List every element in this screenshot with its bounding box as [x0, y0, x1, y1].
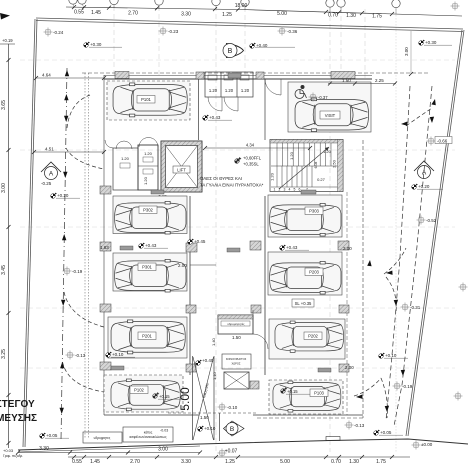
svg-text:1.20: 1.20 [209, 88, 218, 93]
top wall of building [104, 78, 372, 80]
VISIT top dims [328, 83, 396, 85]
structural columns at row boundaries [100, 186, 349, 389]
svg-text:-0.36: -0.36 [287, 29, 298, 34]
svg-text:-0.19: -0.19 [72, 269, 83, 274]
top property boundary (double line) [36, 18, 463, 29]
boxes below building (street furniture) [83, 432, 122, 443]
svg-text:-0.10: -0.10 [227, 405, 238, 410]
svg-text:2.70: 2.70 [130, 459, 140, 465]
svg-text:1.20: 1.20 [121, 156, 130, 161]
svg-text:1.20: 1.20 [270, 172, 275, 181]
dim line (tilted) [66, 7, 462, 16]
svg-text:+0.07: +0.07 [225, 449, 238, 455]
dims near building [32, 73, 106, 155]
parking spot P202 [269, 319, 345, 359]
svg-text:P103: P103 [314, 391, 324, 396]
section marker B bottom [224, 421, 245, 436]
svg-text:4.51: 4.51 [45, 147, 54, 152]
svg-text:1.20: 1.20 [323, 149, 332, 154]
curved branches into spots [67, 95, 90, 128]
svg-text:+0.10: +0.10 [112, 352, 124, 357]
svg-text:6: 6 [299, 188, 301, 192]
svg-text:P203: P203 [309, 270, 319, 275]
svg-text:1.20: 1.20 [289, 151, 294, 160]
svg-text:-0.66: -0.66 [437, 139, 448, 144]
svg-text:-0.37: -0.37 [318, 95, 328, 100]
svg-text:3.25: 3.25 [1, 349, 7, 359]
svg-text:SL +0.35: SL +0.35 [295, 301, 312, 306]
svg-text:3.00: 3.00 [404, 47, 409, 56]
svg-text:+0.10: +0.10 [385, 353, 397, 358]
svg-text:±0.00: ±0.00 [421, 442, 433, 447]
parking spot P103 [269, 380, 343, 414]
svg-text:A: A [422, 170, 427, 177]
svg-text:B: B [228, 48, 233, 55]
dotted sidewalk double line left of building [84, 73, 86, 438]
section marker A right [414, 161, 434, 179]
svg-text:6.08: 6.08 [314, 162, 318, 169]
svg-text:A: A [49, 171, 54, 178]
svg-text:+0.20: +0.20 [57, 193, 69, 198]
svg-text:P201: P201 [142, 334, 152, 339]
svg-text:B: B [230, 426, 234, 433]
entry ramp strip with cross arrow [192, 356, 194, 440]
north arrow [0, 13, 10, 20]
svg-text:1.30: 1.30 [346, 13, 356, 19]
left drive path dash-dot [61, 68, 67, 440]
bottom wall segments [104, 414, 199, 416]
section marker B top [223, 44, 244, 58]
svg-text:ασφάλτων/ανακυκλώσεως: ασφάλτων/ανακυκλώσεως [129, 435, 167, 439]
svg-text:3.30: 3.30 [181, 11, 191, 17]
svg-text:1: 1 [274, 188, 276, 192]
parking spot P102 [104, 375, 183, 412]
svg-text:υδρορρητες: υδρορρητες [94, 436, 111, 440]
svg-text:3: 3 [284, 188, 286, 192]
parking spot P201 [108, 317, 187, 358]
svg-text:+0.45: +0.45 [194, 239, 206, 244]
double door arcs on top [139, 138, 158, 148]
svg-text:0.70: 0.70 [331, 459, 341, 465]
svg-text:ΣΤΑΘΜΕΥΣΗΣ: ΣΤΑΘΜΕΥΣΗΣ [0, 413, 37, 424]
grid bubbles [69, 0, 400, 8]
svg-text:P102: P102 [134, 388, 144, 393]
svg-text:-0.13: -0.13 [354, 423, 365, 428]
kerb step bottom right [326, 437, 340, 441]
right property boundary (double line) [408, 30, 464, 436]
svg-text:-0.31: -0.31 [410, 305, 421, 310]
bubble stems [73, 4, 396, 14]
parking spot P302 [113, 196, 187, 234]
svg-text:1.40: 1.40 [211, 337, 216, 346]
wheel stops [111, 73, 331, 372]
lobby rooms left of lift [105, 138, 158, 191]
svg-text:+0.03: +0.03 [3, 448, 14, 453]
svg-text:P101: P101 [141, 97, 151, 102]
svg-text:3.30: 3.30 [181, 459, 191, 465]
svg-text:1.75: 1.75 [372, 13, 382, 19]
right side levels [427, 137, 436, 146]
svg-text:1.20: 1.20 [241, 88, 250, 93]
svg-text:0.55: 0.55 [74, 10, 84, 16]
svg-text:-0.13: -0.13 [75, 353, 86, 358]
svg-text:1.50: 1.50 [232, 335, 241, 340]
svg-text:1.25: 1.25 [225, 459, 235, 465]
secondary bottom dims [18, 452, 200, 454]
svg-text:1.30: 1.30 [349, 459, 359, 465]
curved connectors right [406, 108, 432, 126]
svg-text:+0.15: +0.15 [159, 394, 170, 399]
svg-text:-0.52: -0.52 [426, 218, 437, 223]
DIMS-BOTTOM [3, 446, 410, 465]
svg-text:2: 2 [279, 188, 281, 192]
svg-text:+0.30: +0.30 [425, 40, 437, 45]
svg-text:-0.23: -0.23 [168, 29, 179, 34]
svg-text:2.25: 2.25 [375, 78, 384, 83]
svg-text:2.00: 2.00 [343, 246, 352, 251]
svg-text:1.75: 1.75 [376, 459, 386, 465]
svg-text:ΟΛΕΣ ΟΙ ΘΥΡΕΣ ΚΑΙ: ΟΛΕΣ ΟΙ ΘΥΡΕΣ ΚΑΙ [200, 176, 242, 181]
svg-text:+0.05: +0.05 [46, 433, 58, 438]
left mid annotations [63, 267, 72, 276]
svg-text:3.65: 3.65 [1, 100, 7, 110]
svg-text:ΧΩΡΟΣ: ΧΩΡΟΣ [231, 362, 240, 366]
svg-text:1.50: 1.50 [342, 78, 351, 83]
svg-text:0.55: 0.55 [72, 459, 82, 465]
storage door arcs [208, 97, 222, 111]
svg-text:LIFT: LIFT [177, 168, 186, 173]
parking spot P101 [107, 81, 190, 120]
building left edge line [103, 75, 105, 415]
svg-text:5.00: 5.00 [280, 459, 290, 465]
svg-text:P302: P302 [143, 208, 153, 213]
svg-text:ΥΠΟΣΤΕΓΟΥ: ΥΠΟΣΤΕΓΟΥ [0, 399, 35, 410]
svg-text:+0,60FFL: +0,60FFL [243, 156, 262, 161]
svg-text:+0.43: +0.43 [286, 245, 298, 250]
svg-text:κάδος: κάδος [144, 431, 153, 435]
svg-text:1.20: 1.20 [144, 151, 153, 156]
svg-text:ΚΟΙΝΟΧΡΗΣΤΟΣ: ΚΟΙΝΟΧΡΗΣΤΟΣ [226, 357, 247, 361]
SPOTS [104, 73, 371, 414]
left property boundary (double line) [25, 19, 37, 447]
PATHS [60, 68, 436, 440]
entry annotations [196, 360, 202, 366]
svg-text:1.45: 1.45 [90, 459, 100, 465]
parking spot P303 [268, 195, 342, 237]
svg-text:4.34: 4.34 [246, 143, 255, 148]
svg-text:18.00: 18.00 [235, 3, 248, 9]
lift shaft [161, 141, 202, 192]
svg-text:P202: P202 [308, 334, 318, 339]
parking spot P203 [268, 252, 342, 295]
svg-text:1.10: 1.10 [212, 371, 217, 380]
svg-text:P301: P301 [142, 265, 152, 270]
svg-text:1.20: 1.20 [225, 88, 234, 93]
svg-text:0.27: 0.27 [317, 177, 326, 182]
SL box [292, 299, 314, 307]
BUILDING [83, 72, 372, 444]
svg-text:+0.20: +0.20 [418, 184, 430, 189]
aisle edge walls [189, 196, 191, 375]
service room 1 (meters) [218, 315, 253, 334]
elevation text underlines [45, 45, 452, 438]
dashed parking envelope right [362, 140, 364, 418]
svg-text:5: 5 [294, 188, 296, 192]
svg-text:ΤΑ ΓΥΑΛΙΑ ΕΙΝΑΙ ΠΥΡΑΝΤΟΧΑ*: ΤΑ ΓΥΑΛΙΑ ΕΙΝΑΙ ΠΥΡΑΝΤΟΧΑ* [200, 183, 264, 188]
svg-text:Γραμ. πεζοδρ.: Γραμ. πεζοδρ. [3, 454, 23, 458]
svg-text:4: 4 [289, 188, 291, 192]
parking spot VISIT [288, 82, 371, 132]
CORE [105, 138, 343, 200]
svg-text:1.83: 1.83 [100, 245, 109, 250]
svg-text:+0.05: +0.05 [380, 430, 392, 435]
svg-text:-0.25: -0.25 [41, 181, 52, 186]
ground / pavement line bottom [18, 439, 468, 450]
top row spot levels [44, 28, 53, 37]
svg-text:+0.19: +0.19 [2, 38, 13, 43]
wheelchair icon [295, 85, 307, 98]
svg-text:VISIT: VISIT [325, 113, 336, 118]
door arc service [253, 334, 268, 349]
svg-text:4.64: 4.64 [42, 73, 51, 78]
svg-text:5.00: 5.00 [178, 387, 192, 411]
shaft with X [224, 372, 249, 389]
svg-text:+0.15: +0.15 [287, 389, 298, 394]
svg-text:+0.10: +0.10 [204, 426, 216, 431]
right drive path dashed lines [386, 86, 410, 420]
svg-text:3.00: 3.00 [1, 183, 7, 193]
svg-text:2.00: 2.00 [178, 263, 187, 268]
svg-text:2.50: 2.50 [332, 159, 337, 168]
svg-text:3.45: 3.45 [1, 265, 7, 275]
svg-text:-0.19: -0.19 [402, 384, 413, 389]
svg-text:P303: P303 [309, 209, 319, 214]
lobby annotations [157, 143, 312, 200]
svg-text:+0.40: +0.40 [202, 358, 214, 363]
svg-text:5.00: 5.00 [277, 11, 287, 17]
storage cells top (3x 1.20) [205, 72, 253, 97]
DIMS-LEFT [0, 13, 15, 448]
svg-text:2.00: 2.00 [345, 365, 354, 370]
svg-text:1.45: 1.45 [91, 10, 101, 16]
svg-text:2.70: 2.70 [128, 11, 138, 17]
svg-text:1.50: 1.50 [200, 415, 209, 420]
svg-text:+0.43: +0.43 [209, 115, 221, 120]
svg-text:-0.24: -0.24 [53, 30, 64, 35]
stairs [270, 140, 344, 192]
section marker A left [41, 162, 61, 180]
parking spot P301 [113, 253, 187, 292]
svg-text:1.25: 1.25 [222, 12, 232, 18]
canopy dashed line above building [82, 72, 430, 74]
svg-text:+0.30: +0.30 [90, 42, 102, 47]
svg-text:-0.03: -0.03 [160, 429, 168, 433]
columns on top wall [115, 72, 129, 79]
svg-text:+0.43: +0.43 [145, 243, 157, 248]
svg-text:υδρομετρητές: υδρομετρητές [227, 322, 245, 326]
service room 2 [222, 354, 251, 369]
svg-text:0.70: 0.70 [328, 12, 338, 18]
DIMS-TOP [66, 0, 462, 19]
svg-text:1.20: 1.20 [143, 176, 148, 185]
svg-text:+0,35SL: +0,35SL [243, 162, 259, 167]
